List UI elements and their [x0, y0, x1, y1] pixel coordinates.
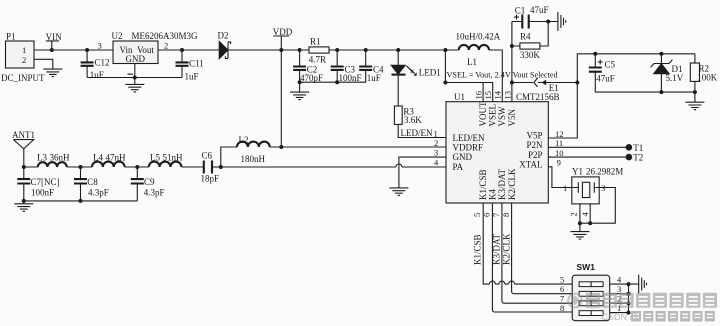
svg-text:VOUT: VOUT — [478, 101, 488, 126]
power port VIN — [46, 32, 62, 50]
wire pin7 to SW1 row7 — [502, 203, 572, 303]
node E1 right — [575, 81, 579, 85]
capacitor C9 — [131, 167, 165, 201]
wire VDD vertical to VDDRF line — [280, 50, 282, 147]
svg-text:VSEL: VSEL — [488, 104, 498, 126]
node VIN junction — [50, 48, 54, 52]
diode D2 schottky — [218, 31, 231, 59]
capacitor C4 — [359, 50, 384, 83]
svg-text:2: 2 — [434, 138, 438, 148]
inductor L2 — [237, 135, 270, 164]
wire pin6 to SW1 row8 — [492, 203, 572, 312]
node C4 top — [364, 48, 368, 52]
svg-text:C5: C5 — [605, 59, 616, 69]
terminal T2 — [626, 153, 644, 163]
svg-text:18pF: 18pF — [201, 174, 220, 184]
node SW1 pin2 — [627, 301, 631, 305]
node E1 left — [510, 81, 514, 85]
svg-text:C12: C12 — [95, 57, 110, 67]
wire U2 GND pin — [134, 64, 136, 78]
capacitor C2 — [293, 50, 323, 83]
node C2 top — [298, 48, 302, 52]
wire ANT rail — [24, 166, 204, 168]
svg-text:3.6K: 3.6K — [404, 115, 422, 125]
svg-text:LED/EN: LED/EN — [453, 133, 485, 143]
node D1 top — [659, 52, 663, 56]
wire pin8 to SW1 row6 — [512, 203, 573, 294]
svg-text:L3: L3 — [37, 152, 47, 162]
node Y1 pin4 — [588, 221, 592, 225]
svg-text:4.3pF: 4.3pF — [88, 188, 109, 198]
svg-text:CMT2156B: CMT2156B — [516, 92, 560, 102]
resistor R1 — [309, 37, 329, 65]
svg-text:LED1: LED1 — [419, 68, 441, 78]
svg-text:4.3pF: 4.3pF — [144, 188, 165, 198]
svg-text:3: 3 — [617, 284, 621, 294]
svg-text:V5N: V5N — [507, 109, 517, 127]
svg-text:K3/DAT: K3/DAT — [492, 233, 502, 265]
svg-text:1: 1 — [563, 183, 567, 193]
inductor L3 — [37, 152, 70, 167]
node VDD junction — [279, 48, 283, 52]
resistor R3 — [394, 106, 422, 125]
svg-text:C11: C11 — [189, 59, 204, 69]
svg-text:470pF: 470pF — [300, 73, 323, 83]
svg-text:R1: R1 — [310, 37, 321, 47]
svg-text:180nH: 180nH — [241, 154, 266, 164]
ground (C2) — [290, 82, 309, 99]
svg-text:VDDRF: VDDRF — [453, 142, 484, 152]
wire cap bottom rail C7-C9 — [24, 200, 138, 202]
svg-text:T2: T2 — [633, 153, 643, 163]
svg-text:K1/CSB: K1/CSB — [472, 234, 482, 265]
svg-text:GND: GND — [126, 54, 146, 64]
wire P1 pin1 to VIN rail — [34, 49, 113, 51]
svg-text:SW1: SW1 — [577, 262, 596, 272]
svg-text:100nF: 100nF — [339, 73, 362, 83]
wire pin13 vertical — [511, 22, 513, 102]
svg-text:47uF: 47uF — [596, 73, 615, 83]
node C12 tap — [85, 48, 89, 52]
svg-text:P1: P1 — [6, 32, 16, 42]
svg-text:ANT1: ANT1 — [12, 130, 35, 140]
switch SW1 — [572, 262, 610, 321]
wire pin10 to T2 — [548, 156, 629, 158]
wire crystal pin2 — [579, 204, 581, 223]
svg-text:1uF: 1uF — [185, 72, 199, 82]
node VDD/VDDRF junction — [279, 145, 283, 149]
svg-text:11: 11 — [555, 138, 563, 148]
svg-text:4.7R: 4.7R — [309, 54, 326, 64]
svg-text:C8: C8 — [87, 177, 98, 187]
svg-text:ME6206A30M3G: ME6206A30M3G — [132, 31, 199, 41]
node LED1 anode — [396, 48, 400, 52]
inductor L5 — [149, 152, 183, 167]
wire SW1 right pins — [610, 284, 629, 313]
watermark text line2 — [602, 311, 715, 322]
svg-text:P2P: P2P — [528, 150, 543, 160]
svg-text:C6: C6 — [202, 151, 213, 161]
node SW1 pin1 — [627, 311, 631, 315]
svg-text:36nH: 36nH — [50, 152, 71, 162]
inductor L4 — [92, 152, 126, 167]
node C1 right — [546, 20, 550, 24]
svg-text:K2/CLK: K2/CLK — [501, 233, 511, 265]
svg-text:5.1V: 5.1V — [666, 73, 684, 83]
wire P1 pin2 — [34, 59, 53, 69]
wire C6 out — [212, 166, 221, 168]
resistor R4 — [512, 22, 548, 61]
node SW1 pin3 — [627, 292, 631, 296]
node C2 bottom — [298, 80, 302, 84]
watermark logo — [568, 294, 582, 308]
watermark text line1 — [586, 293, 717, 308]
wire VSEL branch — [445, 50, 492, 102]
connector P1 — [1, 32, 45, 84]
svg-text:10uH/0.42A: 10uH/0.42A — [456, 32, 501, 42]
svg-text:GND: GND — [453, 152, 473, 162]
svg-text:1: 1 — [434, 128, 438, 138]
svg-text:C1: C1 — [515, 6, 526, 16]
inductor L1 — [456, 32, 501, 68]
svg-text:Y1: Y1 — [572, 167, 583, 177]
regulator U2 ME6206A30M3G — [98, 31, 199, 64]
node C11 tap — [180, 48, 184, 52]
svg-text:R4: R4 — [520, 31, 531, 41]
wire L2 to VDDRF pin2 — [270, 146, 446, 148]
svg-text:2: 2 — [569, 212, 579, 216]
svg-text:8: 8 — [560, 303, 564, 313]
svg-text:K4: K4 — [488, 189, 498, 200]
node C9 top — [135, 165, 139, 169]
svg-text:3: 3 — [98, 41, 102, 51]
IC U1 CMT2156B — [446, 92, 560, 203]
capacitor C3 — [331, 50, 362, 83]
capacitor C11 — [176, 50, 204, 82]
svg-text:V5P: V5P — [526, 131, 542, 141]
capacitor C12 — [81, 50, 110, 80]
svg-text:26.2982M: 26.2982M — [586, 167, 623, 177]
wire R3 to LED/EN pin1 — [398, 124, 446, 137]
wire L1 out to pin14 — [489, 50, 502, 102]
svg-text:T1: T1 — [633, 143, 643, 153]
svg-text:47uF: 47uF — [530, 5, 549, 15]
svg-text:C9: C9 — [144, 177, 155, 187]
svg-text:3: 3 — [434, 148, 438, 158]
wire crystal pin3 loop — [580, 188, 615, 224]
svg-text:L1: L1 — [467, 57, 477, 67]
ground (P1 pin2) — [43, 69, 62, 77]
svg-text:1uF: 1uF — [367, 73, 381, 83]
svg-text:PA: PA — [453, 162, 464, 172]
svg-text:6: 6 — [560, 284, 564, 294]
svg-text:2: 2 — [22, 55, 26, 65]
svg-text:K2/CLK: K2/CLK — [507, 168, 517, 200]
wire PA line with hop — [221, 164, 446, 167]
wire gnd rail under U2 — [87, 77, 182, 79]
power port VDD — [273, 27, 293, 50]
svg-text:VSW: VSW — [497, 106, 507, 127]
ground (R2) — [685, 92, 704, 110]
svg-text:13: 13 — [502, 91, 512, 100]
svg-text:K3/DAT: K3/DAT — [497, 168, 507, 200]
wire pin11 to T1 — [548, 146, 629, 148]
node U2 gnd junction — [133, 76, 137, 80]
svg-text:D2: D2 — [218, 31, 229, 41]
capacitor C8 — [74, 167, 109, 201]
node C3 bottom — [335, 80, 339, 84]
svg-text:LED/EN: LED/EN — [401, 128, 433, 138]
svg-text:2: 2 — [164, 41, 168, 51]
svg-text:15: 15 — [483, 91, 493, 100]
svg-text:XTAL: XTAL — [519, 160, 542, 170]
wire pin12 to top rail — [548, 54, 695, 138]
node ANT junction — [22, 165, 26, 169]
svg-text:C7[NC]: C7[NC] — [31, 177, 60, 187]
node C3 top — [335, 48, 339, 52]
svg-text:9: 9 — [557, 158, 561, 168]
wire pin9 to crystal — [548, 167, 572, 188]
node C7 bottom — [22, 199, 26, 203]
node VSEL branch bottom — [443, 81, 447, 85]
wire L2 branch up — [221, 147, 237, 167]
node C8 top — [79, 165, 83, 169]
wire GND pin3 drop — [399, 157, 446, 188]
wire pin5 to SW1 row5 with hops — [483, 203, 572, 284]
svg-text:14: 14 — [493, 90, 503, 99]
terminal T1 — [626, 143, 644, 153]
svg-text:10: 10 — [555, 148, 564, 158]
svg-text:1uF: 1uF — [90, 70, 104, 80]
ground (C7) — [14, 201, 33, 211]
svg-text:7: 7 — [560, 293, 564, 303]
node C6/L2 junction — [219, 165, 223, 169]
node D1 bottom — [659, 90, 663, 94]
ground (Y1) — [570, 223, 589, 239]
zener diode D1 — [651, 54, 684, 92]
node C8 bottom — [79, 199, 83, 203]
ground sideways (SW1) — [629, 275, 647, 294]
svg-text:1: 1 — [22, 45, 26, 55]
svg-text:5: 5 — [560, 274, 564, 284]
wire crystal pin4 — [589, 204, 591, 223]
svg-text:DC_INPUT: DC_INPUT — [1, 73, 45, 83]
node Y1 pin2 — [578, 221, 582, 225]
svg-text:100K: 100K — [697, 72, 718, 82]
wire U2 out — [158, 49, 219, 51]
wire D2 cathode to R1 — [228, 49, 309, 51]
capacitor C1 polarized — [512, 5, 549, 29]
ground sideways (C1) — [548, 12, 566, 31]
wire bottom rail C5-R2 — [595, 91, 695, 93]
node R4 left — [510, 44, 514, 48]
antenna ANT1 — [12, 130, 35, 167]
LED LED1 — [391, 50, 441, 106]
ground (U2) — [125, 78, 144, 92]
wire cap bottom rail C2-C4 — [300, 70, 366, 82]
resistor R2 — [690, 54, 718, 92]
svg-text:U2: U2 — [112, 31, 123, 41]
node SW1 pin4 — [627, 282, 631, 286]
svg-text:100nF: 100nF — [31, 188, 54, 198]
node R2 bottom — [693, 90, 697, 94]
svg-text:16: 16 — [474, 91, 484, 100]
node C5 top — [593, 52, 597, 56]
svg-text:5: 5 — [472, 213, 482, 217]
wire E1 with chevron and arrow — [512, 78, 577, 93]
node VSEL branch top — [443, 48, 447, 52]
wire R1 right to L1 — [329, 49, 459, 51]
svg-text:U1: U1 — [454, 92, 465, 102]
polarity dash — [128, 73, 134, 75]
svg-text:VIN: VIN — [46, 32, 62, 42]
svg-text:K1/CSB: K1/CSB — [478, 169, 488, 200]
capacitor C7 — [17, 167, 59, 201]
svg-text:P2N: P2N — [526, 140, 543, 150]
capacitor C6 — [201, 151, 220, 184]
ground (U1 GND pin3) — [389, 188, 408, 196]
svg-text:330K: 330K — [520, 50, 541, 60]
crystal Y1 — [563, 167, 623, 204]
capacitor C5 polarized — [589, 54, 616, 92]
